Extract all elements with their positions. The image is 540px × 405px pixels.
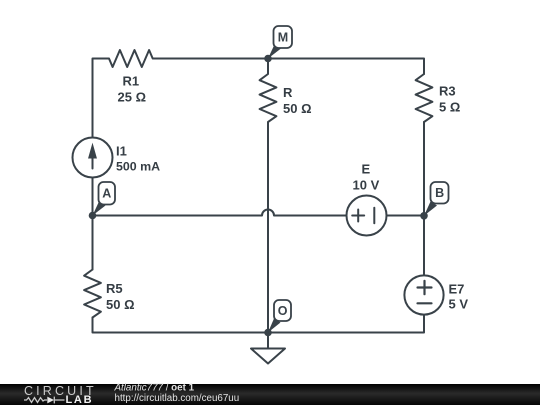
svg-text:50 Ω: 50 Ω bbox=[283, 101, 312, 116]
svg-text:R1: R1 bbox=[123, 74, 140, 89]
svg-text:A: A bbox=[102, 187, 111, 201]
svg-text:E: E bbox=[362, 162, 371, 177]
svg-text:R5: R5 bbox=[106, 281, 123, 296]
svg-text:LAB: LAB bbox=[66, 394, 94, 405]
svg-text:B: B bbox=[435, 186, 444, 200]
svg-text:O: O bbox=[278, 304, 288, 318]
svg-text:25 Ω: 25 Ω bbox=[118, 90, 147, 105]
svg-text:Atlantic777 / oet 1: Atlantic777 / oet 1 bbox=[114, 382, 195, 393]
svg-text:E7: E7 bbox=[449, 282, 465, 297]
svg-text:R: R bbox=[283, 85, 293, 100]
svg-text:10 V: 10 V bbox=[353, 178, 380, 193]
svg-text:5 Ω: 5 Ω bbox=[439, 100, 460, 115]
svg-text:I1: I1 bbox=[116, 144, 127, 159]
svg-text:50 Ω: 50 Ω bbox=[106, 297, 135, 312]
svg-text:5 V: 5 V bbox=[449, 297, 469, 312]
svg-text:http://circuitlab.com/ceu67uu: http://circuitlab.com/ceu67uu bbox=[115, 393, 240, 404]
svg-text:M: M bbox=[278, 31, 288, 45]
svg-text:500 mA: 500 mA bbox=[116, 160, 160, 174]
svg-text:R3: R3 bbox=[439, 84, 456, 99]
